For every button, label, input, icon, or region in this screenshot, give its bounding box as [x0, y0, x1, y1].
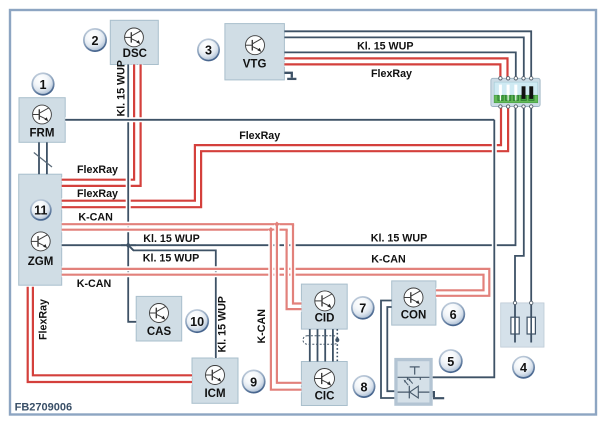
- svg-text:K-CAN: K-CAN: [78, 211, 112, 223]
- svg-text:Kl. 15 WUP: Kl. 15 WUP: [116, 60, 128, 116]
- svg-text:10: 10: [190, 315, 204, 329]
- svg-text:7: 7: [359, 302, 366, 316]
- svg-text:ICM: ICM: [204, 388, 225, 400]
- svg-text:3: 3: [205, 44, 212, 58]
- svg-text:4: 4: [520, 361, 527, 375]
- svg-text:5: 5: [447, 355, 454, 369]
- svg-text:DSC: DSC: [123, 48, 147, 60]
- svg-text:8: 8: [360, 380, 367, 394]
- svg-text:Kl. 15 WUP: Kl. 15 WUP: [216, 296, 228, 352]
- svg-text:K-CAN: K-CAN: [77, 278, 111, 290]
- svg-text:9: 9: [250, 375, 257, 389]
- svg-text:K-CAN: K-CAN: [256, 309, 268, 343]
- svg-text:FB2709006: FB2709006: [15, 401, 73, 413]
- svg-text:Kl. 15 WUP: Kl. 15 WUP: [143, 233, 199, 245]
- svg-text:CID: CID: [315, 312, 335, 324]
- svg-text:K-CAN: K-CAN: [371, 254, 405, 266]
- svg-text:CON: CON: [401, 310, 427, 322]
- svg-text:VTG: VTG: [243, 58, 267, 70]
- svg-text:FlexRay: FlexRay: [371, 68, 412, 80]
- svg-text:FlexRay: FlexRay: [38, 299, 50, 340]
- svg-text:Kl. 15 WUP: Kl. 15 WUP: [357, 41, 413, 53]
- svg-text:FRM: FRM: [30, 128, 55, 140]
- svg-text:ZGM: ZGM: [28, 256, 54, 268]
- svg-text:Kl. 15 WUP: Kl. 15 WUP: [143, 253, 199, 265]
- svg-text:FlexRay: FlexRay: [77, 188, 118, 200]
- svg-text:6: 6: [450, 308, 457, 322]
- svg-text:1: 1: [39, 78, 46, 92]
- svg-text:11: 11: [34, 204, 47, 218]
- svg-text:Kl. 15 WUP: Kl. 15 WUP: [371, 233, 427, 245]
- svg-text:CIC: CIC: [315, 391, 335, 403]
- svg-text:2: 2: [91, 34, 98, 48]
- svg-text:CAS: CAS: [147, 326, 172, 338]
- svg-text:FlexRay: FlexRay: [77, 164, 118, 176]
- svg-text:FlexRay: FlexRay: [239, 130, 280, 142]
